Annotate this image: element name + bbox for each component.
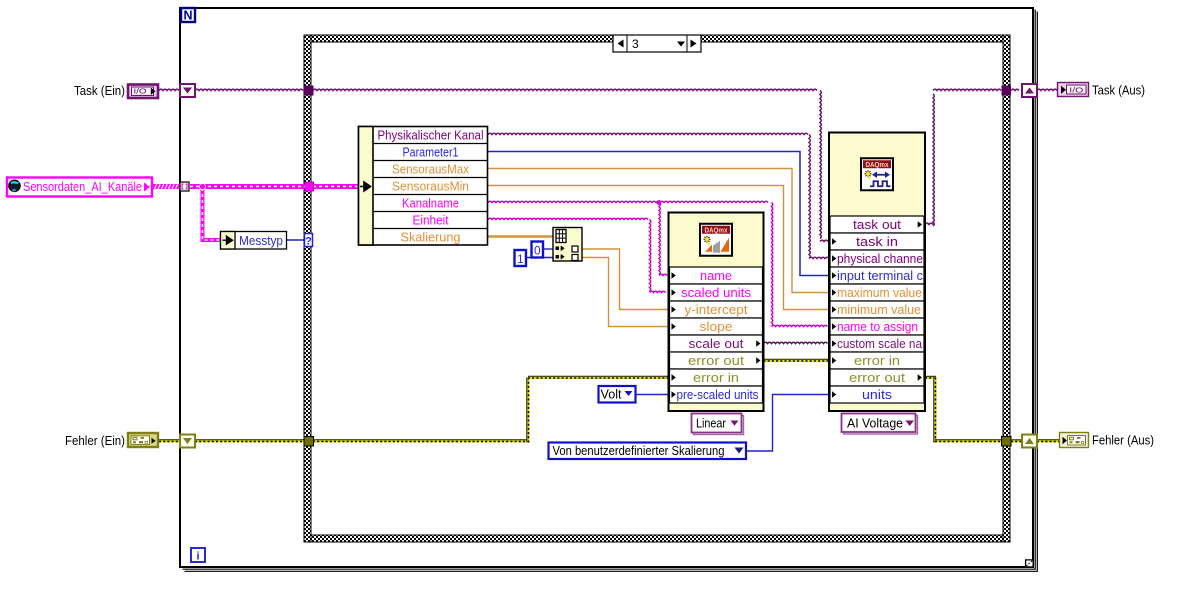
svg-text:error out: error out xyxy=(688,353,744,368)
wire task: Task(Ein) to left shift register xyxy=(159,89,179,90)
DAQmx Create Scale node xyxy=(669,213,764,412)
svg-text:Fehler (Ein): Fehler (Ein) xyxy=(65,433,125,448)
for-loop outer 3D edge xyxy=(183,10,1038,572)
case border left band xyxy=(304,35,311,542)
wire task: shift register to Task(Aus) xyxy=(1037,89,1057,90)
svg-text:Task (Ein): Task (Ein) xyxy=(74,83,125,98)
svg-text:task out: task out xyxy=(853,217,901,232)
enum constant Von benutzerdefinierter Skalierung xyxy=(549,443,747,460)
svg-text:error out: error out xyxy=(849,370,905,385)
wire sensor data: loop tunnel to case tunnel xyxy=(190,184,306,189)
junction Kanalname xyxy=(657,200,662,205)
svg-text:slope: slope xyxy=(700,319,733,334)
wire Parameter1 to input terminal config xyxy=(488,152,829,276)
svg-text:Parameter1: Parameter1 xyxy=(403,145,459,160)
wire error: right tunnel to shift register xyxy=(1011,440,1022,442)
wire Volt to pre-scaled units xyxy=(636,394,669,396)
wire Index Array element1 to slope xyxy=(582,258,669,327)
svg-text:minimum value: minimum value xyxy=(837,302,921,317)
svg-text:Kanalname: Kanalname xyxy=(402,196,459,211)
unbundle node Messtyp xyxy=(221,232,287,250)
svg-text:maximum value: maximum value xyxy=(837,285,922,300)
junction sensor data xyxy=(200,184,206,190)
indicator terminal Task (Aus) xyxy=(1058,83,1089,97)
case selector terminal ? xyxy=(305,234,313,248)
wire Kanalname to name to assign xyxy=(488,201,828,326)
shift register right (error) xyxy=(1022,435,1037,448)
svg-text:name to assign: name to assign xyxy=(837,319,918,334)
shift register left (task) xyxy=(180,84,195,97)
svg-text:Task (Aus): Task (Aus) xyxy=(1092,83,1145,98)
svg-text:Einheit: Einheit xyxy=(413,213,449,228)
svg-text:Von benutzerdefinierter Skalie: Von benutzerdefinierter Skalierung xyxy=(553,443,725,458)
wire constant 1 to index xyxy=(526,257,556,259)
wire Einheit to scaled units xyxy=(488,218,666,292)
svg-text:units: units xyxy=(862,387,893,402)
case selector label xyxy=(613,35,701,52)
auto-index tunnel [] xyxy=(180,182,189,191)
wire SensorausMax to maximum value xyxy=(488,169,829,293)
svg-text:0: 0 xyxy=(534,244,541,258)
svg-text:I/O: I/O xyxy=(1069,86,1083,95)
wire error: channel error out to right tunnel xyxy=(925,376,1001,442)
svg-text:error in: error in xyxy=(693,370,739,385)
wire constant 0 to index xyxy=(543,248,556,250)
global variable Sensordaten_AI_Kanaele xyxy=(7,178,152,197)
svg-text:I/O: I/O xyxy=(134,87,147,96)
ring constant Linear xyxy=(692,414,744,435)
loop count terminal N xyxy=(181,8,195,23)
wire Index Array element0 to y-intercept xyxy=(582,249,669,310)
svg-text:N: N xyxy=(183,9,192,23)
svg-text:Physikalischer Kanal: Physikalischer Kanal xyxy=(378,128,484,143)
svg-text:error in: error in xyxy=(854,353,900,368)
svg-text:AI Voltage: AI Voltage xyxy=(847,416,903,431)
svg-text:pre-scaled units: pre-scaled units xyxy=(677,387,759,402)
control terminal Fehler (Ein) xyxy=(128,433,158,447)
wire sensor data array: global to loop tunnel xyxy=(153,184,180,189)
case border right band xyxy=(1003,35,1010,542)
svg-text:3: 3 xyxy=(632,37,639,51)
ring constant AI Voltage xyxy=(842,414,918,435)
svg-text:SensorausMin: SensorausMin xyxy=(392,179,469,194)
for-loop border xyxy=(180,8,1033,567)
shift register left (error) xyxy=(180,435,195,448)
wire error: shift register to case tunnel xyxy=(195,440,305,442)
svg-text:DAQmx: DAQmx xyxy=(866,162,889,169)
wire Messtyp to case selector xyxy=(287,239,304,241)
wire task: task out up to right tunnel xyxy=(925,89,1001,226)
tunnel sensor data (case left) xyxy=(305,182,314,191)
wire task: case tunnel to DAQmx task in xyxy=(313,89,828,241)
constant 1 xyxy=(515,250,527,266)
wire Kanalname branch to scale name xyxy=(659,203,667,276)
indicator terminal Fehler (Aus) xyxy=(1060,433,1089,448)
svg-text:1: 1 xyxy=(517,252,524,266)
svg-text:?: ? xyxy=(305,235,312,247)
wire SensorausMin to minimum value xyxy=(488,186,829,310)
control terminal Task (Ein) xyxy=(128,85,158,99)
enum constant Volt xyxy=(599,386,636,403)
svg-text:Fehler (Aus): Fehler (Aus) xyxy=(1092,433,1154,448)
wire task: shift register to case tunnel xyxy=(195,89,303,90)
unbundle-by-name node (sensor cluster) xyxy=(359,127,488,246)
svg-text:Messtyp: Messtyp xyxy=(239,233,283,248)
DAQmx Create Virtual Channel node xyxy=(829,133,925,412)
svg-text:Volt: Volt xyxy=(601,388,623,402)
svg-text:Linear: Linear xyxy=(696,416,727,431)
tunnel error (case left) xyxy=(304,437,314,447)
svg-text:task in: task in xyxy=(856,234,898,249)
svg-text:custom scale na: custom scale na xyxy=(837,336,923,351)
svg-text:scaled units: scaled units xyxy=(681,285,752,300)
loop resize corner xyxy=(1025,560,1033,567)
constant 0 xyxy=(532,242,544,258)
tunnel task (case right) xyxy=(1002,86,1012,96)
wire sensor data branch to Messtyp xyxy=(203,188,221,240)
tunnel error (case right) xyxy=(1002,437,1012,447)
wire error: shift register to Fehler(Aus) xyxy=(1037,440,1059,442)
wire error: case tunnel to scale error in xyxy=(313,376,669,442)
index array node xyxy=(553,228,582,262)
shift register right (task) xyxy=(1022,84,1037,97)
wire scale-type ring to units xyxy=(747,395,829,452)
svg-text:physical channe: physical channe xyxy=(837,251,923,266)
svg-text:input terminal c: input terminal c xyxy=(837,268,923,283)
svg-text:name: name xyxy=(700,268,732,283)
svg-text:i: i xyxy=(196,551,199,563)
loop iteration terminal i xyxy=(191,548,205,563)
svg-text:Sensordaten_AI_Kanäle: Sensordaten_AI_Kanäle xyxy=(23,179,142,194)
svg-text:SensorausMax: SensorausMax xyxy=(392,162,469,177)
wire Skalierung array to Index Array xyxy=(488,235,553,238)
case border bottom band xyxy=(304,535,1010,542)
svg-text:y-intercept: y-intercept xyxy=(685,302,748,317)
wire sensor data: case tunnel to unbundle xyxy=(313,184,360,189)
wire scale out to custom scale name xyxy=(764,342,828,343)
wire error: Fehler(Ein) to shift register xyxy=(159,440,180,442)
case border top band xyxy=(304,35,1010,42)
wire Physikalischer Kanal to physical channel input xyxy=(488,133,829,258)
wire error: scale error out to channel error in xyxy=(764,359,830,361)
tunnel task (case left) xyxy=(304,86,314,96)
svg-text:scale out: scale out xyxy=(689,336,744,351)
wire task: right tunnel to shift register xyxy=(1011,89,1019,90)
svg-text:Skalierung: Skalierung xyxy=(401,230,461,245)
svg-text:DAQmx: DAQmx xyxy=(705,228,728,235)
